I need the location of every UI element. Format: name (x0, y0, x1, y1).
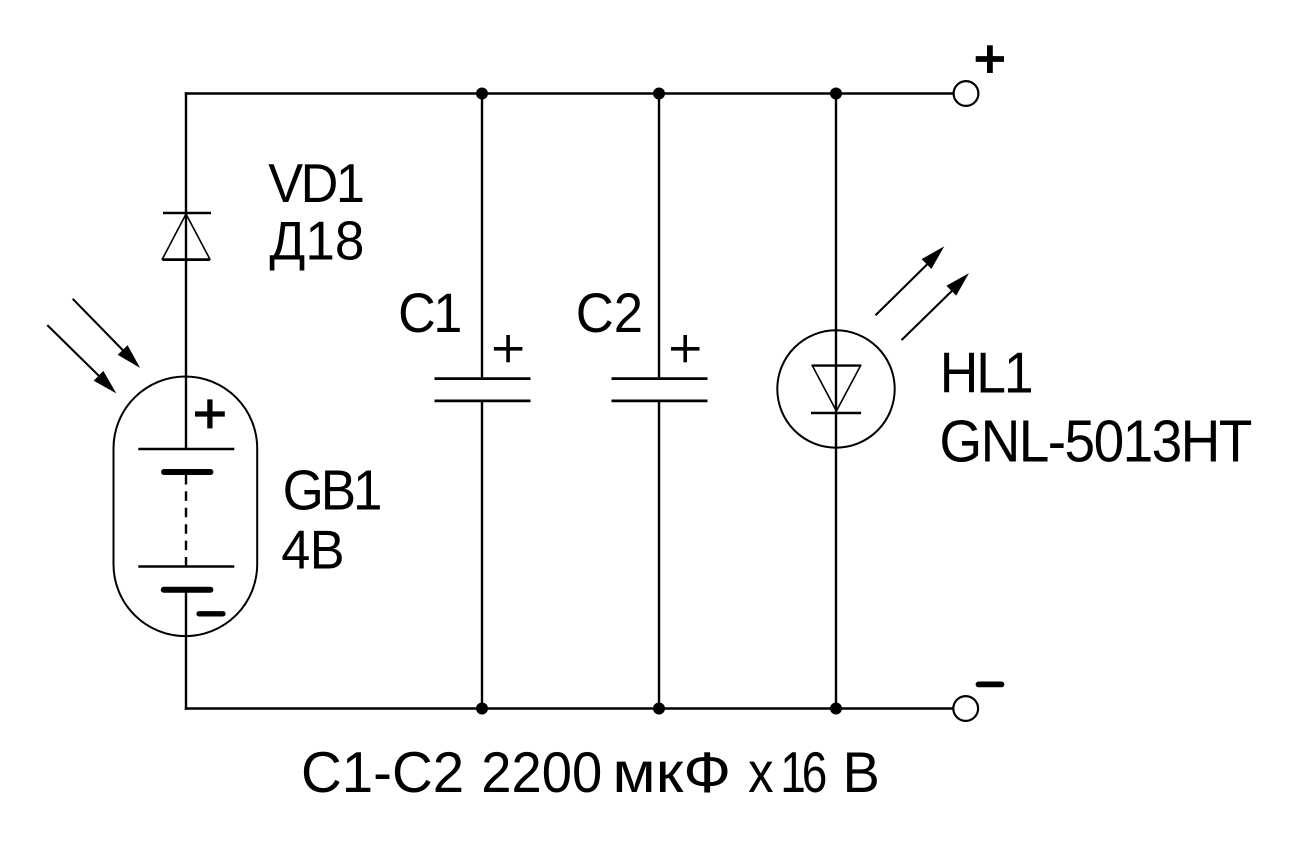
battery GB1 dashed link (185, 475, 187, 567)
diode VD1 cathode bar (163, 212, 211, 214)
battery GB1 cell2 short thick electrode (164, 587, 211, 593)
capacitor C1 top plate (435, 377, 531, 380)
LED HL1 light arrow 2 (902, 273, 970, 340)
battery GB1 cell1 short thick electrode (164, 469, 210, 475)
LED HL1 circle (777, 330, 894, 447)
LED HL1 triangle top line (812, 364, 860, 366)
junction node top C1 (476, 88, 488, 100)
capacitor C1 plus mark (494, 335, 523, 362)
svg-text:HL1: HL1 (940, 341, 1032, 405)
capacitor C2 top plate (612, 377, 708, 380)
svg-text:В: В (843, 741, 880, 805)
diode VD1 triangle base line (162, 259, 209, 261)
wire capacitor C1 upper lead (481, 94, 483, 378)
svg-text:GB1: GB1 (283, 458, 380, 522)
wire capacitor C2 lower lead (658, 402, 660, 709)
svg-text:4В: 4В (281, 519, 344, 581)
terminal - minus mark (979, 682, 1002, 688)
svg-text:2200: 2200 (481, 740, 602, 805)
svg-text:х: х (748, 740, 773, 805)
LED HL1 light arrow 1 (876, 246, 945, 315)
LED HL1 cathode bar (811, 412, 861, 414)
diode VD1 triangle (162, 214, 209, 259)
svg-text:C2: C2 (576, 282, 643, 345)
wire left vertical upper segment (185, 92, 187, 449)
svg-text:Д18: Д18 (269, 211, 364, 272)
battery GB1 minus mark (199, 611, 223, 616)
svg-text:16: 16 (780, 741, 825, 805)
battery light arrow 1 (73, 299, 140, 368)
svg-text:мкФ: мкФ (612, 740, 731, 805)
wire LED HL1 lead (835, 94, 837, 709)
junction node bottom HL1 (830, 703, 842, 715)
svg-text:GNL-5013HT: GNL-5013HT (939, 409, 1251, 475)
junction node bottom C1 (476, 703, 488, 715)
battery GB1 cell1 long electrode (138, 448, 234, 450)
wire left vertical lower segment (185, 590, 187, 710)
capacitor C1 bottom plate (435, 399, 531, 402)
battery GB1 cell2 long electrode (138, 565, 234, 567)
battery GB1 plus mark (195, 399, 225, 428)
capacitor C2 plus mark (671, 335, 700, 362)
wire capacitor C2 upper lead (658, 94, 660, 378)
terminal + circle (954, 81, 979, 106)
capacitor C2 bottom plate (612, 399, 708, 402)
battery GB1 stadium outline (114, 377, 258, 637)
junction node top HL1 (830, 88, 842, 100)
svg-text:C1: C1 (398, 282, 460, 344)
svg-text:VD1: VD1 (268, 153, 363, 215)
junction node top C2 (653, 88, 665, 100)
wire capacitor C1 lower lead (481, 402, 483, 709)
battery light arrow 2 (47, 325, 116, 393)
wire bottom rail (185, 707, 954, 709)
wire top rail (185, 92, 954, 94)
LED HL1 triangle (812, 366, 860, 411)
junction node bottom C2 (653, 703, 665, 715)
terminal - circle (953, 696, 978, 721)
terminal + plus mark (976, 45, 1004, 73)
svg-text:С1-С2: С1-С2 (301, 741, 464, 806)
